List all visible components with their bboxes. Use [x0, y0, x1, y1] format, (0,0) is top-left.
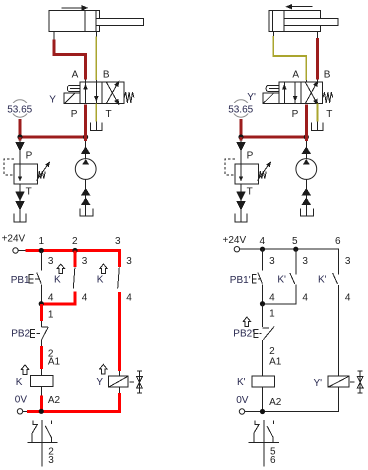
svg-text:K: K	[54, 275, 61, 286]
svg-text:53.65: 53.65	[7, 105, 32, 116]
svg-text:3: 3	[48, 455, 54, 466]
svg-text:1: 1	[39, 236, 45, 247]
terminal 0V (right)	[239, 409, 249, 414]
relay contact K column 2 (closed, conducting)	[41, 251, 75, 304]
wire: left cylinder cap port to valve port A (pressure, dark red)	[54, 32, 86, 83]
pushbutton PB1 (NO, make contact, open)	[29, 251, 41, 304]
svg-text:4: 4	[269, 293, 275, 304]
svg-text:B: B	[103, 70, 110, 81]
relief valve (left)	[4, 159, 52, 184]
exhaust tank at valve T (right)	[312, 104, 323, 131]
flow arrows relief to tank (right)	[236, 184, 245, 222]
terminal 0V (left)	[17, 409, 27, 414]
node: 0V rail / column 4	[260, 409, 265, 414]
svg-text:P: P	[26, 151, 33, 162]
svg-text:4: 4	[82, 293, 88, 304]
node: latch junction column 1	[39, 301, 44, 306]
motion arrow (left cylinder, extend →)	[62, 5, 89, 11]
actuated marker above K contact col2	[57, 264, 64, 274]
svg-text:1: 1	[48, 310, 54, 321]
svg-text:2: 2	[72, 236, 78, 247]
svg-text:K: K	[97, 275, 104, 286]
svg-text:K': K'	[237, 377, 246, 388]
svg-text:Y': Y'	[247, 92, 256, 103]
relay coil K'	[252, 376, 274, 411]
svg-text:+24V: +24V	[2, 234, 26, 245]
wire: coil K to 0V rail (red, live)	[40, 395, 43, 411]
svg-text:2: 2	[269, 346, 275, 357]
cylinder 1A (left, double-acting, extending)	[49, 11, 144, 32]
svg-text:4: 4	[345, 293, 351, 304]
svg-text:P: P	[247, 151, 254, 162]
pushbutton PB1' (NO, open)	[252, 249, 262, 304]
relay coil K	[31, 369, 53, 395]
pin labels 3 / 4 (PB1')	[269, 256, 275, 304]
pin labels 2 / A1 (coil K')	[269, 346, 282, 368]
node: rail / column 5	[293, 247, 298, 252]
wire: right cylinder cap port to valve port A (olive)	[273, 32, 306, 83]
pin labels 3 / 4 (K contact col 2)	[82, 256, 88, 304]
svg-text:T: T	[26, 187, 32, 198]
svg-text:Y': Y'	[314, 378, 323, 389]
pin labels 2 / A1 (coil K)	[48, 348, 61, 367]
svg-text:P: P	[292, 109, 299, 120]
relief valve (right)	[225, 159, 273, 184]
wire: junction to PB2 (red, live)	[40, 304, 43, 321]
pushbutton PB2 (NC, break contact, closed)	[31, 321, 49, 346]
pump (left)	[75, 137, 96, 179]
wire: valve P to junction (left, dark red)	[84, 105, 87, 137]
wire: junction row (left, dark red)	[20, 136, 86, 139]
actuated marker above solenoid Y	[100, 364, 107, 374]
svg-text:3: 3	[302, 256, 308, 267]
svg-text:K': K'	[277, 275, 286, 286]
pin labels 3 / 4 (K' contact col 6)	[345, 256, 351, 304]
valve 1V 4/2-way (left, rest position)	[80, 79, 124, 106]
flow arrow down (right relief branch)	[236, 137, 245, 164]
tank (right relief)	[235, 214, 247, 222]
solenoid pilot Y (left valve)	[64, 93, 80, 103]
solenoid pilot Y' (right valve)	[263, 93, 279, 103]
svg-text:3: 3	[269, 256, 275, 267]
pump (right)	[296, 137, 317, 179]
svg-text:4: 4	[260, 236, 266, 247]
manual override (right valve)	[266, 85, 279, 91]
svg-text:0V: 0V	[15, 394, 28, 405]
tank (left relief)	[14, 214, 26, 222]
pressure gauge 53.65 (right)	[227, 100, 256, 137]
svg-text:K: K	[16, 377, 23, 388]
node: right gauge junction	[238, 134, 243, 139]
column numbers 1 2 3	[39, 236, 122, 247]
relay contact K' column 5 (open)	[263, 249, 296, 304]
contact map of relay K' (below 0V)	[248, 420, 279, 466]
actuated marker above coil K	[21, 365, 28, 375]
wire: 0V rail (right)	[249, 387, 338, 411]
actuated marker above K contact col3	[100, 264, 107, 274]
motion arrow (right cylinder, retract ←)	[285, 4, 312, 10]
exhaust tank at valve T (left)	[91, 104, 102, 131]
valve 2V 4/2-way (right, actuated position)	[279, 79, 323, 106]
svg-text:A2: A2	[269, 397, 282, 408]
svg-text:6: 6	[270, 455, 276, 466]
pressure gauge 53.65 (left)	[6, 100, 35, 137]
tank (left pump)	[80, 209, 93, 216]
svg-text:3: 3	[82, 256, 88, 267]
wire: +24V rail (right)	[245, 249, 338, 274]
wire: right cylinder rod port to valve port B (pressure, dark red)	[317, 32, 319, 83]
return spring (left valve)	[124, 92, 134, 103]
svg-text:3: 3	[345, 256, 351, 267]
pushbutton PB2' (NC, actuated open)	[254, 326, 274, 376]
node: latch junction column 4	[260, 301, 265, 306]
svg-text:53.65: 53.65	[228, 105, 253, 116]
pin labels 3 / 4 (K contact col 3)	[126, 256, 132, 304]
svg-text:T: T	[247, 187, 253, 198]
actuated marker above PB2'	[243, 317, 250, 327]
contact map of relay K (below 0V)	[27, 420, 57, 466]
node: right pump junction	[304, 134, 309, 139]
svg-text:T: T	[106, 109, 112, 120]
svg-text:5: 5	[292, 236, 298, 247]
svg-text:Y: Y	[96, 377, 103, 388]
node: rail / column 1	[39, 248, 44, 253]
relay contact K' column 6 (open)	[333, 273, 339, 376]
svg-text:PB2: PB2	[11, 328, 30, 339]
svg-text:T: T	[326, 109, 332, 120]
wire: junction row (right, dark red)	[241, 136, 306, 139]
port labels A B P T (right valve)	[292, 70, 333, 120]
relay contact K column 3 (closed, conducting)	[118, 251, 120, 372]
solenoid Y' (valve coil)	[328, 376, 349, 387]
cylinder 2A (right, double-acting, retracting)	[269, 11, 338, 32]
svg-text:4: 4	[126, 293, 132, 304]
manual override (left valve)	[67, 85, 80, 91]
tank (right pump)	[301, 209, 314, 216]
svg-text:3: 3	[115, 236, 121, 247]
relief valve port labels P T (left)	[26, 151, 33, 198]
contact map column refs 2 / 3	[48, 446, 54, 466]
svg-text:PB1': PB1'	[230, 275, 251, 286]
svg-text:3: 3	[126, 256, 132, 267]
svg-text:B: B	[324, 70, 331, 81]
valve pictogram beside solenoid Y'	[350, 371, 363, 393]
svg-text:Y: Y	[49, 94, 56, 105]
flow arrows relief to tank (left)	[15, 184, 24, 222]
svg-text:K': K'	[318, 275, 327, 286]
svg-text:A1: A1	[48, 357, 61, 368]
svg-text:0V: 0V	[236, 395, 249, 406]
svg-text:A1: A1	[269, 357, 282, 368]
terminal +24V (right)	[234, 247, 245, 252]
svg-text:1: 1	[269, 309, 275, 320]
flow arrow down (left relief branch)	[15, 137, 24, 164]
wire: 0V rail (left, red, live)	[27, 393, 120, 411]
suction arrows (left pump)	[81, 179, 90, 216]
node: left gauge junction	[17, 134, 22, 139]
node: rail / column 2	[72, 248, 77, 253]
svg-text:6: 6	[335, 236, 341, 247]
node: rail / column 4	[260, 247, 265, 252]
svg-text:4: 4	[48, 293, 54, 304]
relief valve port labels P T (right)	[247, 151, 254, 198]
port labels A B P T (left valve)	[71, 70, 112, 120]
terminal +24V (left)	[13, 248, 26, 253]
svg-text:A: A	[292, 70, 299, 81]
wire: junction to PB2'	[262, 304, 264, 327]
svg-text:P: P	[71, 109, 78, 120]
pin labels 3 / 4 (K' contact col 5)	[302, 256, 308, 304]
column numbers 4 5 6	[260, 236, 342, 247]
wire: PB2 to coil K (red, live)	[40, 346, 43, 369]
svg-text:A: A	[72, 70, 79, 81]
svg-text:PB2': PB2'	[233, 328, 254, 339]
wire: +24V rail (left, red, live)	[26, 251, 120, 268]
solenoid Y (valve coil, energized)	[109, 371, 129, 393]
return spring (right valve)	[323, 92, 333, 103]
node: left pump junction	[83, 134, 88, 139]
wire: valve P to junction (right, dark red)	[305, 105, 308, 137]
valve pictogram beside solenoid Y	[130, 371, 143, 393]
svg-text:4: 4	[302, 293, 308, 304]
svg-text:+24V: +24V	[223, 235, 247, 246]
svg-text:3: 3	[48, 256, 54, 267]
contact map column refs 5 / 6	[270, 446, 276, 466]
svg-text:A2: A2	[48, 395, 61, 406]
wire: left cylinder rod port to valve port B (olive)	[95, 32, 97, 83]
node: 0V rail / column 1	[39, 409, 44, 414]
suction arrows (right pump)	[302, 179, 311, 216]
svg-text:PB1: PB1	[11, 275, 30, 286]
pin labels 3 / 4 (PB1)	[48, 256, 54, 304]
